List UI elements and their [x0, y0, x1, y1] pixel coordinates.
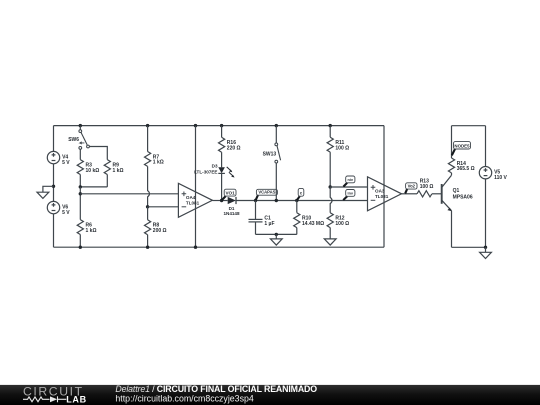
svg-text:inv: inv	[348, 192, 354, 196]
capacitor C1 1uF	[249, 201, 263, 235]
svg-text:MPSA06: MPSA06	[453, 194, 473, 200]
node R3 bottom junction	[79, 185, 82, 188]
node SW6 top on rail	[79, 124, 82, 127]
wire right edge of main loop	[383, 126, 385, 248]
wire ground tap horizontal	[43, 186, 54, 192]
transistor Q1 MPSA06 NPN	[441, 184, 443, 204]
node mid wire bottom on rail	[194, 246, 197, 249]
wire OA4 inverting input	[148, 206, 179, 208]
ground G4 right	[480, 247, 492, 258]
net flag VCAPAS	[256, 195, 258, 200]
node R8 bottom on rail	[146, 246, 149, 249]
resistor R12 100	[327, 213, 333, 239]
svg-text:1 kΩ: 1 kΩ	[113, 168, 124, 174]
svg-text:NODE5: NODE5	[454, 143, 470, 148]
net flag inv	[343, 196, 347, 200]
net flag Vo2	[405, 189, 407, 193]
svg-text:LAB: LAB	[66, 394, 87, 404]
node SW13 on output wire	[275, 199, 278, 202]
diode D1 1N4148	[228, 197, 236, 204]
node R6 bottom on rail	[79, 246, 82, 249]
node mid wire top on rail	[194, 124, 197, 127]
wire top supply rail	[54, 125, 385, 127]
svg-text:1 kΩ: 1 kΩ	[86, 228, 97, 234]
switch SW13 SPST	[275, 143, 278, 146]
svg-text:LTL-307EE: LTL-307EE	[194, 170, 217, 175]
resistor R10 14.43M	[294, 201, 300, 235]
resistor R14 365.5	[448, 126, 454, 174]
svg-text:TL081: TL081	[186, 201, 200, 206]
node SW13 top on rail	[275, 124, 278, 127]
node junction left rail ground tap	[52, 185, 55, 188]
resistor R3 10k	[77, 160, 83, 187]
net flag VO1	[222, 196, 226, 200]
wire SW13 bottom lead	[275, 163, 277, 201]
svg-text:Delattre1 / CIRCUITO FINAL OFI: Delattre1 / CIRCUITO FINAL OFICIAL REANI…	[115, 384, 317, 394]
ground G3 below R12	[324, 239, 336, 245]
wire V5 top lead	[485, 126, 487, 167]
svg-text:D1: D1	[229, 206, 235, 211]
op-amp OA3 TL081	[368, 177, 402, 211]
net flag NODE5	[452, 149, 455, 155]
wire SW6 right throw to R9	[89, 147, 107, 160]
svg-text:OA3: OA3	[375, 189, 385, 194]
wire D1 to C1 node	[235, 200, 330, 202]
node R7 top on rail	[146, 124, 149, 127]
resistor R8 200	[145, 207, 151, 247]
wire left rail lower segment	[53, 214, 55, 247]
footer bar	[0, 385, 540, 405]
node R7 R8 junction	[146, 205, 149, 208]
svg-text:SW13: SW13	[263, 152, 277, 158]
node R16 top on rail	[220, 124, 223, 127]
voltage source V6 5V	[47, 201, 59, 213]
ground G2 below C1/R10	[270, 234, 282, 245]
svg-text:200 Ω: 200 Ω	[153, 228, 167, 234]
svg-text:Q1: Q1	[453, 188, 460, 194]
svg-text:5 V: 5 V	[62, 160, 70, 166]
wire bottom supply rail	[54, 246, 385, 248]
svg-text:365.5 Ω: 365.5 Ω	[457, 166, 475, 172]
wire OA4 noninverting input	[80, 193, 178, 195]
net flag niv	[343, 183, 347, 187]
ground G1 left	[37, 192, 49, 198]
node noninv tap junction	[79, 192, 82, 195]
op-amp OA4 TL081	[178, 183, 212, 217]
wire Q1 emitter down	[451, 211, 453, 248]
node R11 top on rail	[329, 124, 332, 127]
svg-text:5 V: 5 V	[62, 210, 70, 216]
svg-text:10 kΩ: 10 kΩ	[86, 168, 100, 174]
wire left rail middle segment	[53, 164, 55, 202]
svg-text:Vo2: Vo2	[408, 184, 416, 189]
node R11 R12 junction noninv	[329, 185, 332, 188]
node R10 top junction	[295, 199, 298, 202]
svg-text:http://circuitlab.com/cm8cczyj: http://circuitlab.com/cm8cczyje3sp4	[115, 394, 253, 404]
svg-text:SW6: SW6	[68, 137, 79, 143]
node C1 top junction	[254, 199, 257, 202]
svg-text:OA4: OA4	[186, 195, 196, 200]
resistor R16 220	[219, 126, 225, 168]
wire main node to OA3 inverting input	[330, 200, 367, 202]
node right ground tap	[484, 246, 487, 249]
wire Q1 collector up	[451, 173, 453, 175]
svg-text:14.43 MΩ: 14.43 MΩ	[302, 221, 324, 227]
node LED branch on output wire	[220, 199, 223, 202]
wire SW13 top lead	[275, 126, 277, 143]
wire SW6 top lead	[79, 126, 81, 130]
wire R11R12 vertical with hop over main wire	[330, 187, 332, 213]
wire junction to OA3 noninverting input	[330, 186, 367, 188]
wire R3 R9 bottom connector	[80, 186, 107, 188]
wire R3 node down to tap	[79, 187, 81, 220]
wire SW6 bottom throw to R3	[79, 149, 81, 159]
svg-text:VO1: VO1	[225, 191, 235, 196]
svg-text:110 V: 110 V	[494, 175, 507, 181]
svg-text:D3: D3	[212, 164, 218, 169]
svg-text:VCAPAS: VCAPAS	[258, 190, 275, 195]
wire R13 to Q1 base	[432, 193, 441, 195]
wire R7 bottom with hop over crossing wire	[148, 166, 150, 206]
voltage source V5 110V	[479, 167, 491, 179]
switch SW6 SPDT	[79, 130, 82, 133]
wire right loop top	[452, 125, 486, 127]
wire C1 R10 bottom connector	[256, 233, 297, 235]
resistor R11 100	[327, 126, 333, 187]
svg-text:100 Ω: 100 Ω	[335, 221, 349, 227]
svg-text:1N4148: 1N4148	[223, 211, 240, 216]
resistor R6 1k	[77, 220, 83, 248]
resistor R13 100	[417, 191, 432, 197]
resistor R9 1k	[104, 160, 110, 187]
svg-text:100 Ω: 100 Ω	[335, 145, 349, 151]
wire left rail upper segment	[53, 126, 55, 152]
voltage source V4 5V	[47, 151, 59, 163]
svg-text:100 Ω: 100 Ω	[420, 184, 434, 190]
node ground tap bottom connector	[275, 233, 278, 236]
svg-text:niv: niv	[348, 178, 354, 182]
wire V5 bottom lead	[485, 179, 487, 247]
net flag c	[297, 196, 300, 200]
wire OA4 output segment	[212, 200, 227, 202]
wire middle vertical rail-to-rail	[195, 126, 197, 248]
wire right loop bottom	[452, 246, 486, 248]
svg-text:1 µF: 1 µF	[264, 221, 274, 227]
wire OA3 output to R13	[402, 193, 418, 195]
resistor R7 1k	[145, 126, 151, 167]
svg-text:TL081: TL081	[375, 194, 389, 199]
LED D3 LTL-307EE	[218, 167, 225, 173]
svg-text:220 Ω: 220 Ω	[227, 146, 241, 152]
svg-text:1 kΩ: 1 kΩ	[153, 160, 164, 166]
